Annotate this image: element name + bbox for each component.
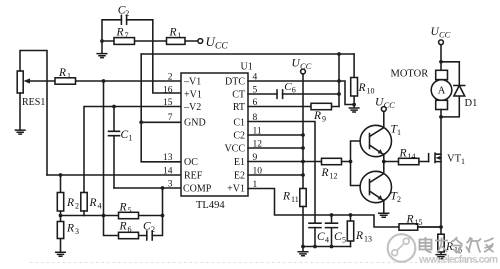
svg-text:4: 4 <box>98 202 102 211</box>
svg-text:9: 9 <box>253 153 258 163</box>
wire: pin10 line <box>248 174 303 176</box>
svg-text:R: R <box>58 67 66 79</box>
wire: R7/R1 rail y41 <box>102 40 198 42</box>
wire: vertical x339 <box>338 54 340 107</box>
terminal UCC2 (above IC) <box>301 69 306 74</box>
junction node C2/R7 <box>100 39 104 43</box>
svg-text:–V1: –V1 <box>183 77 201 88</box>
resistor R5 <box>119 212 139 218</box>
svg-text:E1: E1 <box>234 157 245 168</box>
svg-text:A: A <box>438 86 446 97</box>
svg-text:R: R <box>313 110 321 122</box>
junction CT <box>337 92 341 96</box>
wiper arrowhead <box>24 78 31 83</box>
capacitor C5 <box>326 215 338 247</box>
ground (under R11) <box>298 247 308 256</box>
svg-text:7: 7 <box>125 31 129 40</box>
wire: R15 line <box>418 226 441 228</box>
wire: REF pin14 line <box>47 174 181 176</box>
svg-text:16: 16 <box>163 86 173 96</box>
svg-text:R: R <box>89 197 97 209</box>
svg-text:R: R <box>282 191 290 203</box>
wire: DTC pin4 net <box>248 81 354 105</box>
svg-text:2: 2 <box>151 225 155 234</box>
svg-text:COMP: COMP <box>183 184 212 195</box>
svg-text:R: R <box>169 27 177 39</box>
svg-text:13: 13 <box>163 153 173 163</box>
resistor R11 <box>300 189 306 207</box>
wire: R11 bottom <box>302 207 304 247</box>
ground (under T2) <box>379 213 389 217</box>
svg-text:5: 5 <box>128 206 132 215</box>
wire: motor bottom <box>440 110 442 117</box>
capacitor C2 (bottom) <box>147 231 152 240</box>
resistor R12 <box>322 158 342 164</box>
capacitor C6 <box>277 90 283 99</box>
junction C4 bottom <box>313 245 317 249</box>
svg-text:–V2: –V2 <box>183 102 201 113</box>
svg-text:E2: E2 <box>234 171 245 182</box>
wire: CT pin5 with C6 <box>248 93 339 95</box>
svg-text:7: 7 <box>168 113 173 123</box>
svg-text:REF: REF <box>184 171 203 182</box>
svg-text:8: 8 <box>253 113 258 123</box>
mosfet VT1 <box>429 153 441 162</box>
junction R12/base <box>349 160 353 164</box>
svg-text:R: R <box>119 221 127 233</box>
svg-text:TL494: TL494 <box>196 200 225 211</box>
resistor R9 <box>311 103 332 109</box>
ground (under RES1) <box>15 130 25 134</box>
svg-text:CT: CT <box>232 90 245 101</box>
wire: R4 bottom <box>83 211 85 216</box>
wire: base drive split <box>351 141 370 186</box>
wire: E1 pin9 to R12 <box>248 161 351 163</box>
junction R2/R3 <box>59 214 63 218</box>
svg-text:2: 2 <box>168 73 173 83</box>
svg-text:14: 14 <box>408 152 416 161</box>
svg-text:14: 14 <box>163 167 173 177</box>
svg-text:+V1: +V1 <box>184 90 202 101</box>
junction pin3 <box>161 186 165 190</box>
wire: feedback vertical x103.5 <box>103 81 105 216</box>
junction R5 left <box>102 214 106 218</box>
resistor R3 <box>60 216 62 253</box>
ground (under R16) <box>436 255 446 259</box>
wire: vertical to GND pin7 and OC pin13 <box>141 54 181 162</box>
svg-text:2: 2 <box>397 195 401 204</box>
svg-text:1: 1 <box>397 128 401 137</box>
svg-text:D1: D1 <box>465 98 478 109</box>
capacitor C4 <box>309 223 321 227</box>
svg-text:VT: VT <box>447 154 462 165</box>
svg-text:CC: CC <box>439 30 451 40</box>
junction R10 bottom <box>352 103 356 107</box>
resistor R2 <box>60 175 62 216</box>
svg-text:15: 15 <box>415 218 423 227</box>
wire: COMP pin3 line <box>114 187 181 189</box>
svg-text:5: 5 <box>253 86 258 96</box>
wire: C2a top loop <box>102 20 153 41</box>
svg-text:GND: GND <box>184 118 206 129</box>
svg-text:MOTOR: MOTOR <box>391 69 429 80</box>
resistor R4 <box>81 193 87 212</box>
resistor R10 <box>353 54 355 105</box>
svg-text:R: R <box>321 167 329 179</box>
IC U1 TL494 <box>181 73 248 196</box>
svg-text:13: 13 <box>364 235 372 244</box>
svg-text:5: 5 <box>342 236 346 245</box>
svg-text:6: 6 <box>128 225 132 234</box>
resistor R1 (left) <box>55 78 76 84</box>
wire: RT pin6 with R9 <box>248 106 339 108</box>
wire: +V1 pin16 net from C2 <box>153 20 181 93</box>
terminal UCC1 <box>198 39 203 44</box>
svg-text:R: R <box>358 82 366 94</box>
svg-text:11: 11 <box>253 127 262 137</box>
resistor R1 (top) <box>167 38 186 45</box>
svg-text:C: C <box>317 231 325 243</box>
resistor R14 <box>399 158 419 164</box>
wire: C1out pin8 net to C4 <box>248 122 315 247</box>
junction motor top <box>439 60 443 64</box>
terminal UCC4 (motor) <box>439 40 444 45</box>
ground (under R3) <box>56 252 66 256</box>
svg-text:U1: U1 <box>241 62 253 73</box>
svg-text:12: 12 <box>330 172 338 181</box>
svg-text:4: 4 <box>253 73 258 83</box>
junction DTC <box>337 79 341 83</box>
svg-text:CC: CC <box>215 41 228 51</box>
diode D1 <box>454 85 465 87</box>
svg-text:3: 3 <box>75 227 79 236</box>
svg-text:RT: RT <box>233 102 245 113</box>
terminal UCC3 (T1 collector) <box>381 107 386 112</box>
junction GND pin7 <box>139 120 143 124</box>
svg-text:C: C <box>121 129 129 141</box>
junction pin2/feedback <box>102 79 106 83</box>
svg-text:+V1: +V1 <box>227 184 245 195</box>
resistor R15 <box>399 224 418 230</box>
svg-text:3: 3 <box>168 180 173 190</box>
wire: RES1 bottom <box>19 93 21 130</box>
wire: motor top <box>440 45 442 71</box>
junction pin15/C1 <box>112 105 116 109</box>
svg-text:DTC: DTC <box>225 77 245 88</box>
wire: +V1 pin1 net <box>248 189 441 228</box>
transistor T1 <box>360 125 391 156</box>
resistor R16 <box>440 227 442 254</box>
wire: D1 branch <box>441 62 459 117</box>
resistor R6 <box>119 232 139 238</box>
wire: node rail y215.5 <box>61 215 163 217</box>
svg-text:6: 6 <box>292 86 296 95</box>
wire: R6/C2b branch <box>104 188 163 236</box>
svg-text:2: 2 <box>125 9 129 18</box>
svg-text:12: 12 <box>253 140 263 150</box>
wire: ground rail bottom <box>303 246 351 248</box>
junction x339 top <box>337 52 341 56</box>
junction pin10 <box>301 173 305 177</box>
wire: R14 to gate <box>384 161 429 163</box>
junction pin12 <box>301 146 305 150</box>
junction R13 top <box>349 213 353 217</box>
svg-text:R: R <box>119 202 127 214</box>
wire: wiper to R1 to pin2 <box>27 80 181 82</box>
svg-text:VCC: VCC <box>224 144 245 155</box>
svg-text:1: 1 <box>461 157 465 166</box>
wire: DTC/GND long rail y54 <box>141 53 354 55</box>
faint dotted rule at bottom <box>30 262 490 264</box>
ground (under R10) <box>349 105 359 113</box>
svg-text:R: R <box>66 197 74 209</box>
svg-text:10: 10 <box>253 167 263 177</box>
svg-text:RES1: RES1 <box>22 97 45 108</box>
svg-text:CC: CC <box>384 100 396 110</box>
svg-text:C2: C2 <box>233 131 245 142</box>
svg-text:R: R <box>406 214 414 226</box>
svg-text:CC: CC <box>300 61 312 71</box>
junction C5 bottom <box>330 245 334 249</box>
wire: VCC vertical x303 <box>302 74 304 189</box>
svg-text:15: 15 <box>163 98 173 108</box>
transistor T2 <box>360 171 391 202</box>
junction R5 right <box>161 214 165 218</box>
svg-text:www.elecfans.com: www.elecfans.com <box>418 254 498 265</box>
svg-text:OC: OC <box>184 157 198 168</box>
junction REF/R2 <box>59 173 63 177</box>
junction pin9 <box>301 160 305 164</box>
potentiometer RES1 <box>17 71 23 93</box>
svg-text:R: R <box>116 27 124 39</box>
junction C5 top <box>330 213 334 217</box>
wire: RES1 top to REF corner <box>20 51 47 176</box>
watermark <box>388 234 498 265</box>
junction R15/R16 <box>439 225 443 229</box>
resistor R13 <box>350 215 352 247</box>
motor MOTOR <box>436 70 448 79</box>
svg-text:R: R <box>399 148 407 160</box>
resistor R7 <box>114 38 135 45</box>
wire: drain/source vertical <box>440 117 442 226</box>
junction motor bottom <box>439 115 443 119</box>
svg-text:R: R <box>355 230 363 242</box>
junction T1 emitter / T2 collector <box>382 160 386 164</box>
svg-text:1: 1 <box>253 180 258 190</box>
capacitor C2 (top) <box>121 15 126 24</box>
svg-text:1: 1 <box>178 31 182 40</box>
svg-text:C: C <box>334 231 342 243</box>
svg-text:10: 10 <box>367 87 375 96</box>
junction R11 ground <box>301 245 305 249</box>
svg-text:4: 4 <box>325 236 329 245</box>
wire: pin11 line <box>248 134 303 136</box>
svg-text:11: 11 <box>291 195 299 204</box>
svg-text:R: R <box>66 223 74 235</box>
svg-text:C: C <box>143 221 151 233</box>
svg-text:C1: C1 <box>233 118 245 129</box>
wire: -V2 pin15 net <box>84 107 181 193</box>
junction pin11 <box>301 133 305 137</box>
svg-text:6: 6 <box>253 98 258 108</box>
svg-text:1: 1 <box>129 134 133 143</box>
svg-text:9: 9 <box>322 115 326 124</box>
ground (top, under C2/R7 node) <box>97 41 107 58</box>
wire: pin12 line <box>248 147 303 149</box>
svg-text:2: 2 <box>75 202 79 211</box>
capacitor C1 <box>109 107 120 189</box>
svg-text:1: 1 <box>67 72 71 81</box>
